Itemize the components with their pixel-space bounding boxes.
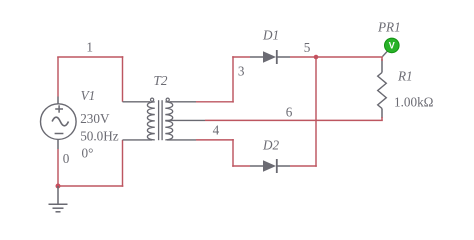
wire node1 right vertical xyxy=(122,56,124,102)
primary bottom pin xyxy=(123,139,153,141)
diode D1 xyxy=(250,50,290,64)
wire node4 horizontal from secondary bottom xyxy=(196,139,234,141)
wire resistor bottom corner xyxy=(381,117,383,120)
wire resistor top corner xyxy=(381,57,383,61)
resistor R1 xyxy=(378,59,387,118)
wire bottom horizontal xyxy=(58,185,123,187)
ground xyxy=(49,186,68,212)
core line 1 xyxy=(158,100,160,140)
probe PR1 xyxy=(383,38,400,56)
svg-text:D1: D1 xyxy=(262,28,279,43)
wire node4 vertical xyxy=(232,139,234,167)
svg-text:3: 3 xyxy=(238,63,245,78)
svg-text:5: 5 xyxy=(304,40,311,55)
wire node1 top horizontal xyxy=(57,56,123,58)
svg-text:4: 4 xyxy=(213,123,220,138)
core line 2 xyxy=(161,100,163,140)
wire node3 horizontal from secondary top xyxy=(196,101,234,103)
wire D2 cathode to corner xyxy=(290,165,317,167)
wire node3 to D1 anode xyxy=(232,56,250,58)
svg-text:6: 6 xyxy=(286,105,293,120)
svg-text:D2: D2 xyxy=(262,138,280,153)
secondary top pin xyxy=(169,101,196,103)
diode D2 xyxy=(250,159,290,173)
wire D1 cathode to junction xyxy=(290,56,316,58)
secondary winding xyxy=(165,102,172,140)
wire V1 bottom to junction xyxy=(57,149,59,186)
svg-text:T2: T2 xyxy=(154,73,168,88)
svg-text:1: 1 xyxy=(86,40,93,55)
svg-text:PR1: PR1 xyxy=(377,20,401,35)
voltage source V1 xyxy=(41,97,77,150)
wire node4 to D2 anode xyxy=(232,165,250,167)
wire node5 vertical down xyxy=(315,57,317,167)
svg-text:0°: 0° xyxy=(82,145,94,160)
primary top pin xyxy=(123,101,151,103)
svg-text:R1: R1 xyxy=(397,69,413,84)
secondary bottom pin xyxy=(167,139,196,141)
svg-text:V1: V1 xyxy=(81,88,96,103)
junction at ground xyxy=(56,184,61,189)
wire bottom right vertical xyxy=(122,140,124,187)
svg-text:V: V xyxy=(389,41,395,51)
wire node6 tap horizontal xyxy=(205,119,383,121)
wire node3 vertical xyxy=(232,56,234,102)
primary winding xyxy=(147,102,154,140)
transformer T2 xyxy=(123,98,206,140)
svg-text:0: 0 xyxy=(63,151,70,166)
svg-text:230V: 230V xyxy=(80,111,110,126)
svg-text:1.00kΩ: 1.00kΩ xyxy=(394,94,434,109)
junction node5 xyxy=(314,55,319,60)
svg-text:50.0Hz: 50.0Hz xyxy=(80,128,119,143)
wire node5 to probe corner xyxy=(316,56,383,58)
secondary tap pin xyxy=(165,119,205,121)
wire node1 left vertical xyxy=(57,57,59,97)
primary phase dot xyxy=(151,98,154,101)
secondary phase dot xyxy=(166,98,169,101)
